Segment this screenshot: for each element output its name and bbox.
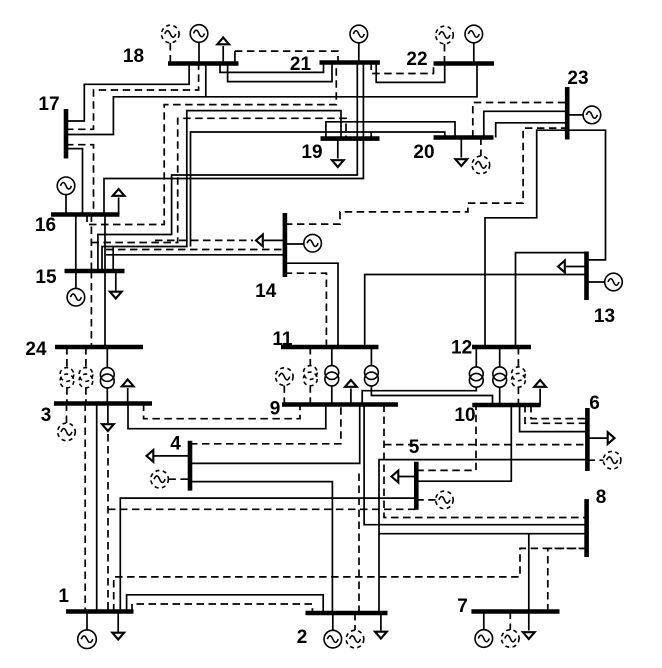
svg-text:6: 6 [589,393,600,414]
generator G9 dashed [276,368,294,405]
generator G7a [475,612,493,648]
wire 16-21 dashed [87,63,336,225]
generator G21 [350,25,368,62]
bus 21 [320,60,380,65]
wire 21-22 solid [376,63,445,83]
transformer 24-3 solid [100,347,114,404]
wire 20-23 solid 2 [496,123,568,138]
svg-text:2: 2 [297,627,308,648]
wire 8-9 dashed [384,405,587,518]
load arrow bus 13 left [558,261,587,273]
svg-text:9: 9 [270,399,281,420]
generator G20 dashed [472,138,490,174]
svg-text:7: 7 [457,596,468,617]
svg-text:17: 17 [38,94,59,115]
load arrow bus 14 left [256,235,285,247]
wire 15-16 solid 2 [104,215,106,272]
load arrow bus 7 down [523,612,535,640]
generator G18a dashed [162,25,180,63]
svg-text:13: 13 [594,306,615,327]
svg-text:22: 22 [406,49,427,70]
bus 22 [434,61,495,66]
wire 15 riser stub [112,247,114,272]
wire 19-20 solid 2 [326,122,455,139]
wire 15-16 dashed [90,215,92,272]
wire 3-9 solid [128,404,326,429]
load arrow bus 4 left [147,450,191,462]
generator G3 dashed [58,404,76,441]
load arrow bus 19 down [332,139,344,167]
generator G15 [67,271,85,306]
svg-text:1: 1 [58,586,69,607]
wire 15-19 dashed [91,118,346,242]
wire 12-23 solid [485,130,567,347]
wire 6-10 dashed 1 [531,405,587,419]
transformer 10-11 solid [365,347,493,405]
wire 1-3 dashed [84,404,86,612]
svg-text:20: 20 [413,142,434,163]
transformer 24-3 dashed 2 [79,347,93,404]
wire 1-2 solid 1 [127,595,324,613]
wire 2-5 dashed [358,470,360,613]
wire 2-8 solid row [379,533,587,535]
wire 5-10 dashed [416,405,476,470]
generator G16 [57,177,75,215]
bus 5 [414,462,419,510]
wire 3-9 dashed [144,404,300,419]
svg-text:12: 12 [451,338,472,359]
wire 16-20 solid [191,132,445,247]
svg-text:14: 14 [255,281,277,302]
load arrow bus 3 up [122,380,134,404]
load arrow bus 2 down [375,613,387,639]
wire 1-5 dashed row [108,508,416,510]
load arrow bus 18 up [217,38,229,64]
wire 2-4 solid [190,482,332,613]
bus 18 [168,61,239,66]
generator G6 dashed [587,451,620,469]
wire 16-17 solid [66,149,83,215]
wire 20-23 solid 1 [484,111,567,137]
bus 24 [55,345,143,350]
generator G2b dashed [346,613,364,648]
wire 14-23 dashed [285,128,567,224]
bus 15 [65,269,125,274]
wire 17-18 dashed [66,64,199,130]
wire 2-6 solid [379,460,587,613]
svg-text:16: 16 [35,215,56,236]
wire 6-10 dashed 2 [525,405,587,423]
wire 15-19 solid [102,111,341,271]
svg-text:19: 19 [301,142,322,163]
transformer 10-12 dashed [512,347,526,405]
generator G23 [567,106,601,124]
svg-text:5: 5 [409,437,420,458]
wire 7-8 dashed [548,548,587,611]
wire 19 drop [370,132,372,139]
load arrow bus 10 up [534,380,546,405]
generator G18b [190,25,208,64]
bus 8 [584,499,589,557]
wire 4-9 dashed [190,405,341,444]
load arrow bus 5 left [392,471,417,483]
wire 1-3 solid [96,404,98,612]
svg-text:10: 10 [454,405,475,426]
generator G1 [78,612,97,649]
wire 13-23 solid [567,130,605,260]
load arrow bus 1 down [112,612,124,640]
generator G7b dashed [502,612,520,648]
bus 4 [188,441,193,491]
bus 7 [471,609,559,614]
wire 11-14 dashed [285,273,327,347]
svg-text:8: 8 [596,487,607,508]
wire 14 dashed stub [155,239,253,241]
transformer 9-11 dashed [303,347,317,405]
bus 23 [565,87,570,140]
transformer 9-11 solid [325,347,339,405]
generator G14 [285,234,322,252]
bus 12 [472,345,531,350]
bus 19 [321,136,380,141]
bus 17 [64,109,69,159]
wire 5-10 solid [416,405,511,481]
wire 7-8 solid [528,534,530,612]
bus 13 [584,252,589,301]
generator G5 dashed [416,491,453,509]
bus 6 [585,408,590,471]
svg-text:21: 21 [290,54,312,75]
bus 11 [281,345,379,350]
wire 1-2 dashed 2 [132,604,312,613]
bus 1 [66,609,134,614]
generator G22b [465,25,483,63]
wire 14-16 solid [106,254,285,256]
load arrow bus 6 right [587,432,614,444]
generator G4 dashed [151,470,190,488]
wire 18-21 solid 1 [220,63,324,73]
load arrow bus 3 down [102,404,114,432]
bus 20 [434,135,494,140]
svg-text:24: 24 [25,339,47,360]
bus 16 [51,212,120,217]
bus 2 [306,611,388,616]
wire 16-17 dashed [66,145,94,215]
svg-text:11: 11 [272,329,293,350]
wire 1-5 solid [120,498,416,611]
svg-text:23: 23 [567,68,588,89]
wire 11-14 solid [285,263,338,347]
wire 15-16 solid 1 [75,215,77,272]
load arrow bus 9 up [345,380,357,405]
wire 18 stub [205,64,207,97]
wire 16-21 solid [104,63,363,215]
load arrow bus 16 up [113,189,125,215]
load arrow bus 15 down [110,271,122,299]
generator G13 [587,273,623,291]
svg-text:3: 3 [41,405,52,426]
wire 12-13 solid [516,253,587,347]
wire 6-10 solid [520,405,588,432]
bus 9 [282,402,398,407]
wire 15-24 dashed [90,271,92,347]
wire 21-22 dashed [371,63,433,74]
wire 17-18 solid [66,64,189,122]
transformer 9-12 solid [362,347,483,405]
svg-text:4: 4 [170,434,181,455]
wire 15-24 solid [104,271,106,347]
wire 1-8 dashed [114,548,587,611]
generator G22a dashed [436,26,454,63]
transformer 10-12 solid [493,347,507,405]
svg-text:15: 15 [35,267,57,288]
wire 20-23 dashed [473,103,567,138]
wire 1-5 dashed [107,434,109,612]
wire 6-9 dashed row [384,444,587,446]
wire 15-21 solid [98,63,357,272]
wire 4-9 solid [190,405,360,464]
wire 17-22 solid [66,64,477,135]
load arrow bus 20 down [455,138,467,167]
wire 18-21 solid 2 [228,63,332,82]
transformer 24-3 dashed 1 [60,347,74,404]
wire 14-16 dashed [106,249,285,251]
svg-text:18: 18 [123,46,144,67]
wire 11-13 solid [365,275,587,348]
bus 14 [283,213,288,277]
bus 3 [54,401,152,406]
wire 8-9 solid [364,405,586,525]
generator G2a [324,613,342,648]
bus 10 [472,403,540,408]
wire 18-21 dashed top [234,51,236,63]
